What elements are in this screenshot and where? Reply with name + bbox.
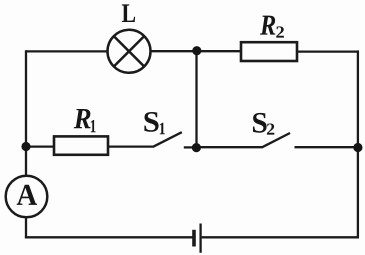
wire S1 right contact stub to node B [184, 146, 196, 148]
node dot left (left wire / R1 branch junction) [21, 142, 30, 151]
wire top-left horizontal [26, 50, 108, 52]
lamp L (circle with X) [108, 30, 151, 73]
wire bottom left horizontal [25, 236, 193, 238]
label S2 (S) [253, 113, 267, 133]
label A (ammeter) [17, 185, 37, 205]
label R2 (R) [260, 16, 275, 35]
label R2 (sub 2) [276, 26, 284, 37]
label S1 (sub 1) [160, 123, 165, 134]
label S1 (S) [144, 112, 158, 132]
resistor R1 [54, 136, 108, 154]
wire R2 to top-right corner [297, 50, 357, 52]
wire S2 to right node [295, 146, 359, 148]
label R1 (R) [74, 109, 91, 128]
node dot top (lamp / R2 / middle branch junction) [192, 46, 201, 55]
wire lamp to node A to R2 [150, 50, 241, 52]
resistor R2 [241, 42, 297, 61]
node dot right (S2 / right wire junction) [353, 143, 362, 152]
node dot middle (S1 / S2 / vertical wire junction) [192, 143, 201, 152]
label S2 (sub 2) [267, 124, 274, 135]
wire left upper vertical [25, 50, 27, 176]
wire middle vertical (lamp node down to node B) [195, 51, 197, 148]
wire right vertical [357, 50, 359, 237]
wire R1 to switch S1 contact [108, 145, 154, 147]
switch S2 blade [262, 133, 290, 147]
switch S1 blade [153, 132, 182, 147]
ammeter A [6, 176, 48, 218]
wire node B to switch S2 contact [196, 146, 262, 148]
wire left lower vertical [25, 217, 27, 238]
battery: short thick plate (negative) [192, 230, 196, 247]
wire middle row: node to R1 [26, 145, 54, 147]
wire bottom right horizontal [202, 236, 359, 238]
battery: long thin plate (positive) [199, 224, 201, 253]
label R1 (sub 1) [91, 120, 96, 132]
label L [122, 4, 135, 22]
